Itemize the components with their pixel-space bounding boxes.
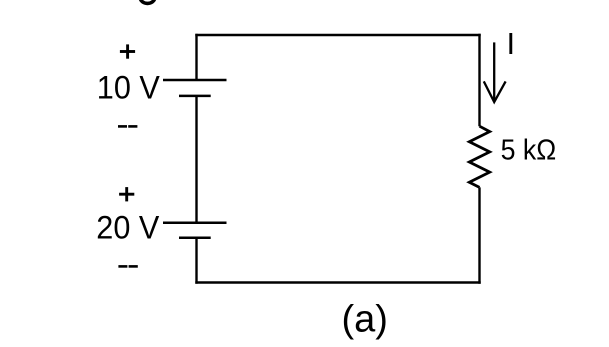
resistor R1 (5 kOhm) zigzag body	[469, 126, 489, 187]
cropped heading letter fragment (bottom of a "g")	[140, 0, 154, 3]
wire: left vertical from V2 negative plate down to bottom-left corner	[195, 238, 197, 284]
voltage source V2 (20 V): negative plate (short)	[179, 236, 211, 239]
current arrow I: open arrowhead	[484, 81, 506, 102]
svg-text:10 V: 10 V	[97, 69, 161, 105]
svg-text:20 V: 20 V	[96, 210, 160, 246]
svg-text:I: I	[507, 26, 516, 61]
label: V2 polarity plus sign	[119, 187, 134, 201]
label: V1 polarity minus dashes	[118, 125, 137, 128]
voltage source V1 (10 V): negative plate (short)	[179, 95, 211, 98]
wire: left vertical from top-left corner down to V1 positive plate	[195, 34, 197, 80]
wire: left vertical between V1 negative plate and V2 positive plate	[195, 96, 197, 223]
label: V1 polarity plus sign	[120, 44, 135, 58]
svg-text:5 kΩ: 5 kΩ	[501, 134, 557, 166]
current arrow I: shaft	[493, 42, 495, 100]
svg-text:(a): (a)	[342, 299, 388, 341]
voltage source V2 (20 V): positive plate (long)	[163, 222, 227, 225]
voltage source V1 (10 V): positive plate (long)	[163, 79, 227, 82]
wire: top horizontal from node above V1 to node above resistor	[195, 34, 480, 36]
label: V2 polarity minus dashes	[118, 265, 137, 268]
wire: bottom horizontal from node below V2 to node below resistor	[195, 281, 480, 283]
wire: right vertical from resistor R1 bottom down to bottom-right corner	[478, 187, 480, 283]
wire: right vertical from top-right corner down to resistor R1 top	[478, 34, 480, 126]
